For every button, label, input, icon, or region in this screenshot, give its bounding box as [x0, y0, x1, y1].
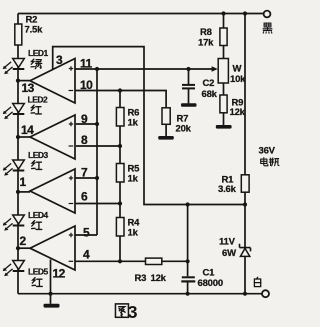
wire: pin4 R3 line — [75, 260, 188, 262]
svg-text:8: 8 — [81, 133, 88, 147]
svg-text:C2: C2 — [203, 78, 215, 89]
resistor R9 — [220, 95, 227, 113]
junction C1 branch supply wire — [186, 202, 190, 206]
junction C1 ground bus — [186, 292, 190, 296]
junction right rail top bus — [243, 11, 247, 15]
resistor R8 — [220, 28, 227, 46]
ground (R9) — [216, 125, 232, 129]
node 2 output junction — [16, 246, 20, 250]
LED2 red — [3, 104, 25, 120]
label 电瓶 — [261, 158, 268, 166]
junction R5 R4 pin6 — [118, 201, 122, 205]
svg-text:2: 2 — [20, 234, 27, 248]
svg-text:1: 1 — [20, 175, 27, 189]
node 13 output junction — [16, 79, 20, 83]
svg-text:C1: C1 — [203, 268, 216, 279]
junction pin9 rail — [95, 122, 99, 126]
wire: C2 branch — [188, 69, 190, 84]
junction R4 bottom pin4 — [118, 259, 122, 263]
terminal white — [262, 290, 269, 297]
svg-text:13: 13 — [22, 81, 35, 95]
svg-text:7.5k: 7.5k — [25, 25, 44, 36]
junction C2 wiper line — [186, 67, 190, 71]
junction pin7 rail — [95, 176, 99, 180]
junction R1 bottom supply wire — [243, 202, 247, 206]
svg-text:12k: 12k — [151, 273, 167, 284]
label 黑 — [263, 23, 272, 33]
svg-text:7: 7 — [81, 166, 88, 180]
wire: pin8 lead — [76, 145, 120, 147]
svg-text:5: 5 — [83, 226, 90, 240]
junction R3 C1 node — [186, 259, 190, 263]
capacitor C2 — [182, 84, 195, 90]
svg-text:6: 6 — [81, 190, 88, 204]
node 1 output junction — [16, 190, 20, 194]
ground (R7) — [158, 136, 174, 140]
ground (pin12 bottom) — [44, 304, 60, 308]
svg-text:LED1: LED1 — [28, 48, 49, 58]
potentiometer W 10k — [212, 59, 229, 84]
resistor R1 — [241, 175, 249, 192]
svg-text:9: 9 — [81, 112, 88, 126]
svg-text:LED4: LED4 — [28, 210, 49, 220]
wire: pin10 line to R7 — [75, 91, 166, 108]
caption 图3 — [115, 304, 128, 317]
svg-text:11V: 11V — [219, 237, 236, 248]
svg-text:LED2: LED2 — [28, 95, 49, 105]
wire: C2 to ground — [188, 89, 190, 104]
wire: C1 branch from supply — [187, 205, 189, 277]
resistor R3 — [146, 258, 162, 264]
node 14 output junction — [16, 135, 20, 139]
wire: R8-W-R9 divider rail — [223, 14, 225, 126]
svg-text:3.6k: 3.6k — [218, 184, 237, 195]
svg-text:10: 10 — [80, 78, 93, 92]
op-amp U1c (pins 7,6 out 1) — [18, 169, 75, 213]
capacitor C1 — [181, 276, 195, 282]
svg-text:1k: 1k — [128, 174, 139, 185]
svg-text:68000: 68000 — [198, 278, 223, 289]
op-amp U1d (pins 5,4 out 2) — [18, 226, 75, 270]
junction R6 top pin10 — [118, 88, 122, 92]
resistor R2 — [15, 24, 22, 45]
svg-text:6W: 6W — [222, 248, 236, 259]
svg-text:36V: 36V — [259, 146, 276, 157]
wire: right battery rail — [244, 14, 246, 294]
svg-text:10k: 10k — [230, 74, 246, 85]
zener diode 11V 6W — [240, 244, 251, 257]
op-amp U1a (pins 3,11,10 out 13) — [18, 59, 75, 104]
junction pin12 ground bus — [48, 292, 52, 296]
svg-text:20k: 20k — [176, 124, 192, 135]
svg-text:4: 4 — [83, 248, 90, 262]
label 白 — [254, 277, 260, 286]
svg-text:R3: R3 — [135, 273, 147, 284]
wire: divider rail R6 R5 R4 — [119, 91, 121, 262]
wire: noninverting input rail — [96, 69, 98, 235]
LED3 red — [3, 160, 25, 176]
svg-text:17k: 17k — [198, 38, 214, 49]
LED4 red — [3, 215, 25, 231]
wire: bottom ground bus — [18, 293, 262, 295]
resistor R4 — [116, 218, 124, 237]
wire: ground stub bottom left — [50, 294, 52, 304]
wire: pin12 lead to ground — [50, 260, 52, 294]
junction R6 R5 pin8 — [118, 144, 122, 148]
svg-text:14: 14 — [21, 123, 34, 137]
wire: pin3 supply net — [53, 47, 245, 205]
wire: wiper line pin11 to W — [75, 68, 213, 70]
junction R8 top bus — [221, 11, 225, 15]
wire: R7 to ground — [165, 124, 167, 136]
svg-text:3: 3 — [128, 302, 138, 322]
svg-text:LED3: LED3 — [28, 150, 49, 160]
ground (C2) — [181, 103, 197, 107]
wire: C1 to ground bus — [187, 283, 189, 294]
junction zener ground bus — [243, 292, 247, 296]
wire: pin5 lead — [75, 234, 97, 236]
op-amp U1b (pins 9,8 out 14) — [18, 115, 75, 159]
svg-text:68k: 68k — [202, 89, 218, 100]
wire: left LED rail — [17, 14, 19, 294]
junction wiper noninverting rail — [95, 67, 99, 71]
svg-text:11: 11 — [80, 57, 93, 71]
LED5 red — [3, 261, 25, 277]
wire: pin7 lead — [75, 177, 97, 179]
wire: pin6 lead — [75, 203, 120, 205]
svg-text:W: W — [233, 64, 242, 75]
svg-text:12: 12 — [53, 267, 66, 281]
resistor R7 — [162, 108, 170, 125]
svg-text:1k: 1k — [128, 118, 139, 129]
wire: pin9 lead — [76, 123, 97, 125]
svg-text:3: 3 — [56, 53, 63, 67]
svg-text:LED5: LED5 — [28, 267, 49, 277]
svg-text:1k: 1k — [128, 228, 139, 239]
wire: top +36V bus — [18, 13, 264, 15]
terminal black — [264, 11, 271, 18]
svg-text:R8: R8 — [200, 27, 212, 38]
resistor R5 — [116, 164, 124, 183]
svg-text:12k: 12k — [230, 107, 246, 118]
LED1 green — [3, 59, 25, 75]
resistor R6 — [116, 108, 124, 127]
